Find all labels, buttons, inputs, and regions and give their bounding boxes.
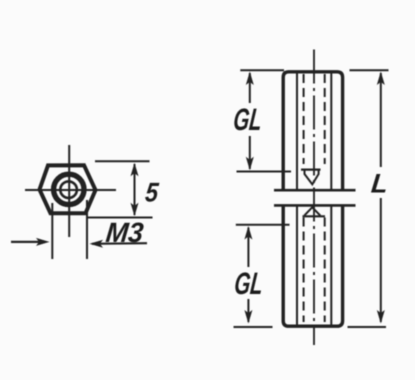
top thread dashed line right [324,74,326,164]
svg-text:GL: GL [233,266,265,301]
svg-text:M3: M3 [104,217,145,249]
bottom thread dashed line right [324,218,326,323]
thread outer ring (thick circle) [54,174,84,204]
GL bottom dimension line with arrows [247,228,249,268]
hole extension line left [51,203,53,259]
GL top dimension line with arrows [249,73,251,103]
label M3 [104,217,145,249]
label L [370,167,390,198]
svg-text:GL: GL [232,102,264,137]
body outline upper part [283,72,342,190]
GL bottom extension line (bottom, at body bottom) [234,326,273,328]
hex facet line right upper [330,74,332,190]
GL bottom extension line (top, thread depth) [236,224,290,226]
hex facet line left upper [296,74,298,190]
M3 pointer line left (arrow pointing right at hole) [11,241,45,243]
hex facet line left lower [296,207,298,325]
L extension line top [350,69,389,71]
GL top extension line (bottom, thread depth) [237,171,292,173]
top thread dashed line left [303,74,305,164]
hole extension line right [86,200,88,259]
hex facet line right lower [330,207,332,325]
horizontal centerline of hex view [25,189,116,191]
break line lower [274,204,356,207]
bottom thread dashed line left [303,218,305,323]
vertical centerline of hex view [68,145,70,237]
GL top extension line (top, at body top) [240,69,284,71]
centerline of side view [313,50,315,346]
M3 leader line (arrow pointing left at hole) [92,242,147,245]
label 5 (across flats) [144,178,161,208]
S dimension extension line bottom [88,217,153,219]
label GL (top) [232,102,264,137]
thread inner circle [60,181,77,198]
top thread depth line [301,169,321,171]
L dimension line with arrows [380,73,382,167]
body outline lower part [283,206,342,327]
L extension line bottom [348,326,387,328]
S dimension extension line top [95,160,150,162]
top drill point (V) [305,170,319,185]
break line upper [274,189,356,192]
label GL (bottom) [233,266,265,301]
hexagon body (end view) [40,165,96,213]
bottom thread shoulder line [303,215,326,217]
svg-text:L: L [370,167,390,198]
S dimension line with two arrows [134,164,136,215]
bottom drill point (V pointing up) [304,207,320,215]
